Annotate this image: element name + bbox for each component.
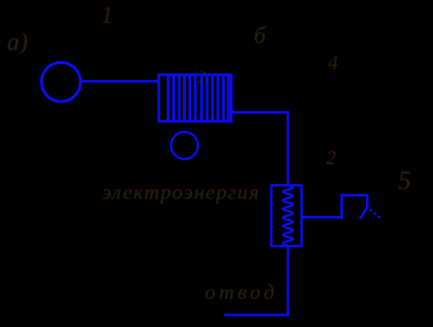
valve blade solid leg: [360, 208, 368, 220]
wire throttle down and left (drain): [224, 246, 288, 315]
throttle coil zigzag: [283, 185, 293, 246]
wire condenser to down-corner: [231, 112, 288, 185]
throttle box: [271, 185, 301, 246]
label 1: [101, 3, 113, 30]
label 5: [398, 166, 411, 196]
label 6: [254, 23, 266, 49]
label a): [7, 29, 28, 57]
wire throttle to valve: [301, 195, 367, 217]
wire compressor to condenser: [80, 80, 158, 83]
label 4: [328, 52, 338, 75]
condenser finned body: [159, 75, 231, 121]
label 2 right: [326, 147, 336, 170]
fan circle: [171, 132, 198, 159]
text drain: [205, 280, 278, 305]
compressor circle: [42, 63, 81, 102]
valve blade dashed leg: [370, 209, 381, 218]
condenser fins: [168, 75, 228, 121]
label 2 on condenser: [197, 67, 206, 88]
text electric energy: [102, 180, 260, 205]
